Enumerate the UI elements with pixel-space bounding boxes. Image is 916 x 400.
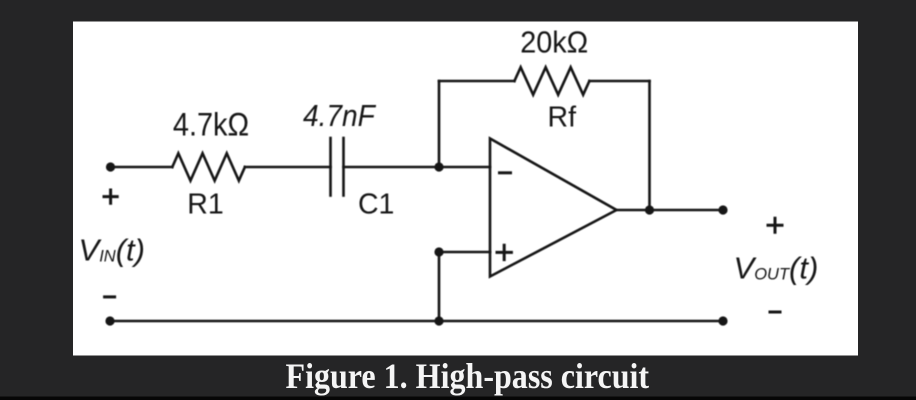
svg-text:4.7kΩ: 4.7kΩ (173, 106, 249, 142)
resistor R1 (172, 153, 245, 180)
junction dot: node A (434, 162, 443, 171)
minus sign output terminal (770, 311, 780, 314)
minus sign inside op-amp (500, 171, 511, 174)
wire: feedback top right segment (589, 80, 649, 83)
capacitor C1 plates (329, 138, 332, 196)
wire: node A up to feedback (438, 81, 441, 167)
wire: non-inverting input (439, 251, 490, 254)
svg-text:20kΩ: 20kΩ (520, 26, 588, 60)
junction dot: bottom center (434, 316, 443, 325)
resistor Rf (514, 67, 589, 94)
junction dot: non-inverting node (434, 247, 443, 256)
wire: bottom return rail (110, 320, 723, 323)
wire: feedback down to output (648, 81, 651, 210)
svg-text:C1: C1 (358, 188, 394, 220)
wire: input terminal to R1 (111, 166, 173, 169)
minus sign input terminal (105, 295, 115, 298)
junction dot: bottom right terminal (718, 316, 727, 325)
bottom black strip (0, 397, 916, 400)
white schematic panel (73, 22, 858, 356)
wire: op-amp output (617, 209, 724, 212)
plus sign inside op-amp (497, 245, 511, 259)
plus sign output terminal (768, 218, 782, 232)
junction dot: output terminal (718, 205, 727, 214)
svg-text:Rf: Rf (548, 102, 577, 134)
wire: feedback top left segment (439, 80, 514, 83)
junction dot: input terminal (106, 162, 115, 171)
junction dot: feedback/output (645, 205, 654, 214)
wire: plus node down to ground rail (438, 252, 441, 321)
svg-text:R1: R1 (187, 188, 223, 220)
op-amp U1 triangle (490, 139, 617, 277)
svg-text:Figure 1. High-pass circuit: Figure 1. High-pass circuit (286, 356, 650, 396)
junction dot: bottom left terminal (105, 316, 114, 325)
plus sign input terminal (104, 190, 117, 203)
svg-text:4.7nF: 4.7nF (303, 99, 377, 133)
wire: R1 to C1 (245, 166, 331, 169)
wire: C1 to op-amp inverting input (344, 166, 491, 169)
